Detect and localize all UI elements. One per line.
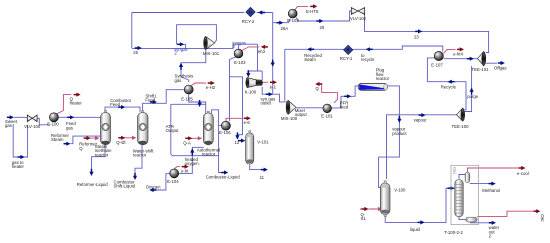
arrow oxygen feed	[149, 188, 156, 192]
wire syn gas riser x272.7	[272, 13, 274, 94]
wire MIX-101 loop rectangle	[177, 25, 217, 45]
svg-text:oxygen: oxygen	[185, 161, 199, 166]
wire gas to heater loop	[13, 124, 27, 157]
arrow K-100 suction down	[246, 70, 250, 77]
wire synthesis gas riser to MIX-101	[181, 50, 206, 82]
energy arrow E-HT5	[310, 4, 317, 8]
energy Q-S1 line	[360, 208, 382, 211]
wire K-100 suction from E-103	[248, 44, 262, 80]
energy Q-R reboiler line	[477, 211, 533, 216]
arrow 25	[316, 19, 323, 23]
heat exchanger E-100	[49, 113, 58, 122]
tee TEE-100	[457, 108, 465, 121]
svg-text:MIX-101: MIX-101	[203, 51, 220, 56]
svg-text:11: 11	[260, 175, 265, 180]
separator V-101	[246, 131, 254, 164]
arrow combustor shift liquid down	[133, 173, 137, 180]
svg-text:VLV-102: VLV-102	[350, 16, 367, 21]
svg-text:vapour: vapour	[414, 118, 428, 123]
wire RCY-2 top recycle line	[132, 12, 245, 14]
arrow into TEE-101	[467, 57, 474, 61]
svg-text:23: 23	[414, 34, 419, 39]
arrow gas to heater	[18, 155, 25, 159]
svg-text:e-cool: e-cool	[517, 171, 529, 176]
svg-text:E-102: E-102	[287, 18, 299, 23]
energy arrow e-cool	[518, 166, 525, 170]
wire water out 2	[471, 221, 490, 224]
energy e-1 line	[262, 81, 268, 83]
arrow syngas3 into MIX-101	[177, 42, 184, 46]
arrow recycled steam	[307, 47, 314, 51]
svg-text:E-104: E-104	[167, 179, 179, 184]
energy arrow Q-S1	[362, 207, 369, 211]
tee TEE-101	[477, 52, 485, 66]
svg-text:K-100: K-100	[245, 90, 257, 95]
arrow combustor liquid	[221, 170, 228, 174]
svg-text:heater: heater	[12, 164, 25, 169]
wire to recycle RCY-1	[353, 46, 443, 52]
wire methanol	[470, 183, 490, 185]
svg-text:Feed: Feed	[110, 102, 120, 107]
wire syngas 2 drop	[177, 44, 186, 48]
arrow 12 into V-101	[238, 139, 245, 143]
heat exchanger E-103	[234, 49, 243, 58]
wire reformer steam	[71, 136, 101, 144]
wire recycled steam drop to MIX-100	[284, 49, 286, 101]
svg-text:12: 12	[235, 140, 240, 145]
wire feed gas E-100 to reformer	[58, 116, 100, 118]
svg-text:e-6: e-6	[244, 120, 251, 125]
wire recycled steam RCY-1	[285, 48, 344, 50]
arrow sweet gas	[7, 115, 14, 119]
svg-text:product: product	[392, 131, 407, 136]
heat exchanger E-102	[288, 9, 297, 18]
svg-text:reactor: reactor	[376, 76, 390, 81]
svg-text:reactor: reactor	[95, 152, 109, 157]
arrow column feed	[448, 186, 455, 190]
svg-text:e-ht4: e-ht4	[453, 52, 463, 57]
arrow to recycle	[366, 47, 373, 51]
arrow syngas riser down	[271, 60, 275, 67]
svg-text:output: output	[295, 112, 308, 117]
compressor K-100	[246, 78, 263, 88]
arrow feed gas	[67, 115, 74, 119]
energy arrow Q-R	[533, 209, 540, 213]
column steam methane reactor	[101, 111, 111, 145]
wire ATR output drop	[171, 104, 219, 155]
svg-text:Steam: Steam	[51, 137, 64, 142]
energy e-ht4 line	[444, 49, 456, 53]
condenser T-100	[465, 172, 470, 182]
svg-text:feed: feed	[340, 105, 349, 110]
column water-shift reactor	[138, 111, 149, 145]
wire RCY-2 right to 26A riser	[257, 12, 273, 14]
arrow shift1 feed	[150, 100, 157, 104]
svg-text:purge: purge	[467, 94, 479, 99]
wire PFR product drop	[379, 86, 400, 188]
wire heated oxygen to ATR	[179, 147, 204, 173]
arrow heated oxygen up	[190, 148, 194, 155]
arrow water out 2	[489, 221, 496, 225]
wire combustor feed reformer to watershift	[105, 107, 140, 112]
wire column top to condenser	[459, 172, 467, 178]
wire K-100 discharge syn gas outlet	[262, 87, 286, 102]
svg-text:e-H2: e-H2	[206, 85, 216, 90]
wire sweet gas to valve	[14, 117, 28, 118]
svg-text:26A: 26A	[281, 26, 289, 31]
svg-text:Output: Output	[166, 128, 180, 133]
arrow 26	[135, 46, 142, 50]
arrow syn gas outlet	[266, 92, 273, 96]
svg-text:Feed: Feed	[145, 97, 155, 102]
energy eh3 line	[242, 47, 259, 51]
svg-text:Combustor-Liquid: Combustor-Liquid	[206, 175, 241, 180]
svg-text:recycle: recycle	[361, 57, 375, 62]
distillation column T-100 tray section	[455, 180, 463, 217]
svg-text:Shift-Liquid: Shift-Liquid	[114, 184, 136, 189]
wire shift1 feed to E-105	[143, 90, 185, 112]
svg-text:Reformer-Liquid: Reformer-Liquid	[77, 182, 108, 187]
heat exchanger E-101	[323, 104, 332, 113]
svg-text:E-HT5: E-HT5	[306, 9, 319, 14]
svg-text:S1: S1	[361, 216, 367, 221]
wire V-100 liquid to column	[385, 188, 455, 222]
svg-text:e-ht: e-ht	[181, 169, 189, 174]
separator V-100	[380, 181, 390, 217]
heat exchanger E-104	[170, 169, 179, 178]
wire purge TEE-100 to TEE-101	[465, 66, 472, 112]
arrow offgas	[498, 61, 505, 65]
heat exchanger E-107	[434, 51, 443, 60]
svg-text:VLV-100: VLV-100	[24, 124, 41, 129]
arrow vapour	[419, 113, 426, 117]
reboiler T-100	[466, 217, 477, 222]
wire mixer output to E-101	[296, 107, 323, 109]
svg-text:25: 25	[320, 25, 325, 30]
wire 26 drop from RCY-2 loop	[131, 13, 133, 49]
arrow 26A	[276, 21, 283, 25]
arrow recycle left	[448, 80, 455, 84]
svg-text:TEE-100: TEE-100	[452, 124, 470, 129]
svg-text:V-101: V-101	[257, 140, 269, 145]
wire E-102 to 25 to VLV-102	[296, 11, 351, 21]
svg-text:heater: heater	[70, 101, 83, 106]
energy arrow e-ht4	[457, 47, 464, 51]
arrow purge up	[470, 88, 474, 95]
arrow 23	[415, 29, 422, 33]
svg-text:TEE-101: TEE-101	[472, 67, 490, 72]
svg-text:26: 26	[133, 50, 138, 55]
arrow reformer liquid down	[89, 169, 93, 176]
svg-text:Oxygen: Oxygen	[146, 185, 161, 190]
wire E-107 to TEE-101	[444, 58, 478, 60]
arrow reformer steam	[64, 142, 71, 146]
svg-text:steam: steam	[304, 57, 316, 62]
valve VLV-102	[351, 8, 364, 15]
wire vapour to TEE-100	[387, 115, 457, 179]
svg-text:Recycle: Recycle	[441, 84, 457, 89]
energy arrow Q heater	[74, 93, 81, 97]
svg-text:gas: gas	[175, 78, 182, 83]
valve VLV-100	[27, 115, 37, 122]
energy Q-sft line	[124, 136, 135, 139]
svg-text:RCY-1: RCY-1	[340, 56, 353, 61]
energy arrow e-6	[244, 116, 251, 120]
arrow ATR feed down	[198, 100, 202, 107]
svg-text:R: R	[249, 10, 253, 16]
energy arrow Q-A	[185, 136, 192, 140]
svg-text:E-107: E-107	[431, 63, 443, 68]
wire combustor shift liquid	[135, 145, 142, 175]
svg-text:Q-sft: Q-sft	[116, 140, 126, 145]
svg-text:Methanol: Methanol	[482, 188, 500, 193]
wire column bottom to reboiler	[459, 216, 466, 219]
arrow PFR feed	[344, 94, 351, 98]
svg-text:gas: gas	[5, 123, 12, 128]
wire VLV-102 to 23 to TEE-101	[365, 11, 489, 53]
wire E-105 down to ATR feed	[189, 94, 206, 114]
svg-text:eh3: eh3	[258, 49, 266, 54]
energy e-H2 line	[192, 83, 207, 86]
energy e-6 line	[226, 118, 243, 121]
svg-text:Q-A: Q-A	[183, 140, 191, 145]
energy arrow E-101 Q left	[315, 82, 322, 86]
svg-text:e-1: e-1	[270, 85, 277, 90]
svg-text:E-105: E-105	[181, 96, 193, 101]
svg-text:liquid: liquid	[410, 227, 421, 232]
energy e-cool line	[467, 168, 518, 172]
energy arrow eh3 left	[261, 45, 268, 49]
wire valve to E-100	[37, 118, 50, 125]
svg-text:reactor: reactor	[133, 153, 147, 158]
svg-text:E-106: E-106	[219, 130, 231, 135]
arrow liquid	[418, 220, 425, 224]
recycle RCY-1	[344, 45, 353, 54]
mixer MIX-100	[286, 100, 296, 114]
heat exchanger E-105	[184, 85, 193, 94]
svg-text:R: R	[541, 218, 544, 223]
energy Q-A line	[191, 137, 201, 140]
wire reformer liquid	[92, 145, 106, 173]
svg-text:R: R	[346, 48, 350, 54]
plug flow reactor PFR	[358, 83, 387, 90]
svg-text:E-103: E-103	[234, 60, 246, 65]
arrow synthesis gas up	[179, 63, 183, 70]
energy E-101 Q line	[320, 84, 338, 103]
svg-text:E-101: E-101	[321, 113, 333, 118]
arrow 12 down	[235, 132, 239, 139]
wire ATR top feed header	[171, 103, 206, 105]
energy reformer Q line	[90, 137, 99, 140]
svg-text:gas: gas	[66, 125, 73, 130]
wire ATR to E-106 junction	[212, 110, 219, 156]
svg-text:Offgas: Offgas	[494, 65, 507, 70]
wire E-103 to E-106 riser	[230, 57, 237, 121]
wire stub to E-106	[219, 125, 222, 127]
column autothermal reactor	[203, 111, 213, 145]
svg-text:E-100: E-100	[47, 121, 59, 126]
wire recycle from TEE-100	[427, 58, 466, 110]
subflowsheet border T-100	[451, 165, 479, 224]
arrow vapour product down	[397, 116, 401, 123]
energy arrow Q-sft	[118, 136, 125, 140]
energy arrow e-1	[270, 80, 277, 84]
wire combustor liquid	[219, 156, 222, 173]
svg-text:COL1: COL1	[453, 167, 457, 174]
wire offgas	[486, 62, 497, 64]
mixer MIX-101	[204, 36, 215, 49]
energy arrow e-H2	[208, 81, 215, 85]
svg-text:outlet: outlet	[261, 101, 272, 106]
recycle RCY-2	[246, 7, 255, 16]
energy e-ht1 line	[174, 167, 180, 169]
wire oxygen feed to E-104	[154, 174, 170, 190]
heat exchanger E-106	[221, 121, 230, 130]
svg-text:RCY-2: RCY-2	[242, 19, 255, 24]
svg-text:T-100-2-2: T-100-2-2	[444, 230, 463, 235]
wire 26 to E-103 long run	[132, 44, 258, 49]
wire 26A to E-102	[273, 19, 291, 23]
wire branch to V-101 feed	[230, 77, 245, 141]
arrow 2 into RCY-2	[258, 10, 265, 14]
arrow 11	[261, 168, 268, 172]
energy arrow reformer Q	[84, 136, 91, 140]
arrow methanol	[489, 182, 496, 186]
energy E-HT5 line	[295, 6, 308, 9]
svg-text:reactor: reactor	[202, 152, 216, 157]
svg-text:V-100: V-100	[394, 187, 406, 192]
wire PFR feed	[332, 86, 359, 108]
energy Q heater line	[57, 95, 71, 114]
arrow combustor feed	[118, 105, 125, 109]
energy arrow e-ht1	[182, 165, 189, 169]
wire V-101 bottoms 11	[250, 165, 266, 170]
